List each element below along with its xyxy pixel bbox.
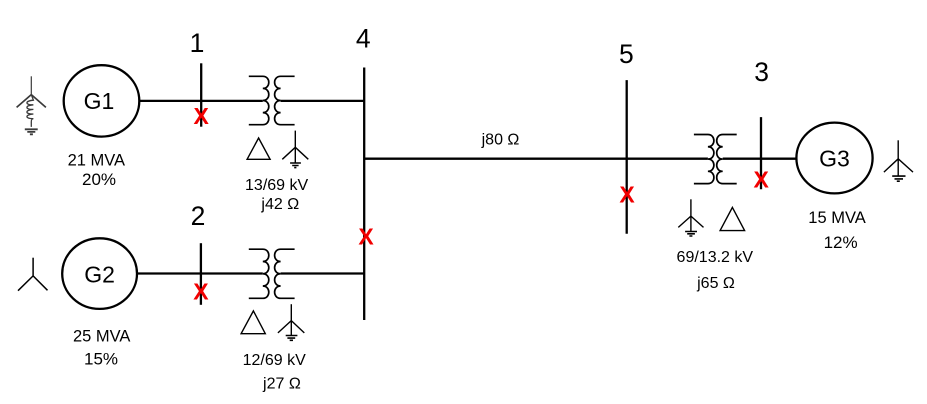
bus 5 [626, 80, 628, 234]
transformer T1 winding right [275, 76, 295, 124]
svg-text:25 MVA: 25 MVA [73, 328, 130, 346]
wire bus5 to transformer T3 [627, 158, 708, 160]
bus 2 [200, 243, 202, 305]
bus 4 [363, 68, 365, 321]
wire G1 to transformer T1 [139, 100, 263, 102]
wire T1 to bus 4 [281, 100, 365, 102]
grounded wye with neutral reactor (left of G1) [17, 76, 46, 134]
svg-text:12/69 kV: 12/69 kV [243, 352, 306, 369]
transformer T3 winding left [694, 135, 714, 184]
wire G2 to transformer T2 [137, 272, 263, 274]
transformer T1 winding left [249, 76, 269, 124]
wire bus 3 to G3 [761, 158, 796, 160]
wire T2 to bus 4 [281, 272, 365, 274]
wire T3 to bus 3 [723, 158, 761, 160]
grounded wye symbol (right of G3) [884, 140, 913, 181]
bus 3 [760, 117, 762, 189]
svg-text:20%: 20% [82, 170, 116, 189]
svg-text:G1: G1 [84, 88, 115, 114]
wye symbol (left of G2) [18, 258, 48, 291]
generator G2 [62, 238, 137, 309]
svg-text:X: X [193, 279, 209, 305]
delta symbol T3 [720, 207, 745, 230]
delta symbol T2 [241, 311, 265, 334]
transformer T2 winding right [275, 249, 295, 298]
svg-text:X: X [358, 223, 374, 249]
svg-text:69/13.2 kV: 69/13.2 kV [677, 249, 754, 266]
svg-text:13/69 kV: 13/69 kV [245, 177, 308, 194]
svg-text:5: 5 [619, 39, 634, 69]
transmission line bus4 to bus5 [364, 158, 627, 160]
svg-text:12%: 12% [824, 233, 858, 252]
svg-text:j42 Ω: j42 Ω [260, 196, 299, 213]
bus 1 [200, 63, 202, 126]
transformer T2 winding left [249, 249, 269, 298]
svg-text:21 MVA: 21 MVA [68, 151, 125, 169]
svg-text:G3: G3 [819, 145, 850, 171]
svg-text:X: X [754, 166, 770, 192]
svg-text:1: 1 [190, 28, 205, 58]
svg-text:4: 4 [356, 24, 371, 54]
svg-text:j65 Ω: j65 Ω [696, 275, 735, 292]
generator G3 [796, 123, 872, 194]
svg-text:X: X [194, 103, 210, 129]
svg-text:j80 Ω: j80 Ω [481, 132, 520, 149]
transformer T3 winding right [717, 135, 737, 184]
grounded wye symbol T1 [282, 131, 308, 168]
generator G1 [64, 65, 140, 136]
svg-text:X: X [619, 181, 635, 207]
svg-text:3: 3 [754, 57, 769, 87]
grounded wye symbol T2 [278, 304, 304, 340]
svg-text:j27 Ω: j27 Ω [262, 375, 301, 392]
svg-text:G2: G2 [84, 261, 115, 287]
svg-text:15%: 15% [84, 350, 118, 369]
svg-text:15 MVA: 15 MVA [808, 209, 865, 227]
delta symbol T1 [247, 138, 270, 159]
grounded wye symbol T3 [678, 199, 703, 236]
svg-text:2: 2 [191, 201, 206, 231]
